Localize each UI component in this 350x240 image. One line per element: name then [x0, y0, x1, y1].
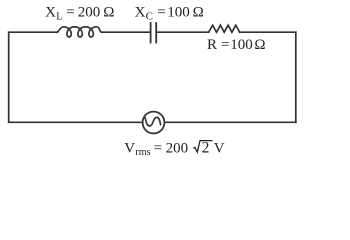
capacitor XC left plate [150, 23, 152, 43]
svg-text:Ω: Ω [193, 4, 204, 20]
svg-text:X: X [45, 4, 56, 20]
svg-text:100: 100 [230, 37, 253, 53]
svg-text:Ω: Ω [254, 37, 265, 53]
radical sign of sqrt(2) [193, 141, 212, 153]
wire: capacitor to resistor [157, 31, 209, 33]
capacitor XC right plate [155, 23, 157, 43]
svg-text:200: 200 [78, 4, 101, 20]
wire: right vertical side [295, 32, 297, 122]
svg-text:=: = [221, 37, 229, 53]
svg-text:L: L [56, 12, 62, 23]
wire: top-left segment to inductor [9, 31, 58, 33]
svg-text:100: 100 [167, 4, 190, 20]
svg-text:=: = [66, 4, 74, 20]
svg-text:X: X [135, 4, 146, 20]
svg-text:2: 2 [202, 140, 210, 157]
wire: left vertical side [8, 32, 10, 122]
svg-text:200: 200 [166, 141, 189, 157]
wire: resistor to top-right corner [240, 31, 296, 33]
svg-text:Ω: Ω [103, 4, 114, 20]
svg-text:=: = [157, 4, 165, 20]
resistor R zigzag [209, 25, 240, 32]
svg-text:V: V [214, 141, 225, 157]
wire: bottom-right segment to source [165, 121, 296, 123]
svg-text:=: = [154, 141, 162, 157]
svg-text:rms: rms [135, 147, 150, 158]
AC source circle [143, 112, 165, 134]
svg-text:C: C [146, 11, 153, 23]
svg-text:R: R [207, 37, 217, 53]
wire: inductor to capacitor [102, 31, 150, 33]
inductor XL coil [57, 27, 101, 37]
wire: bottom-left segment from source [9, 121, 143, 123]
AC source sine wave [145, 117, 160, 126]
svg-text:V: V [124, 141, 135, 157]
